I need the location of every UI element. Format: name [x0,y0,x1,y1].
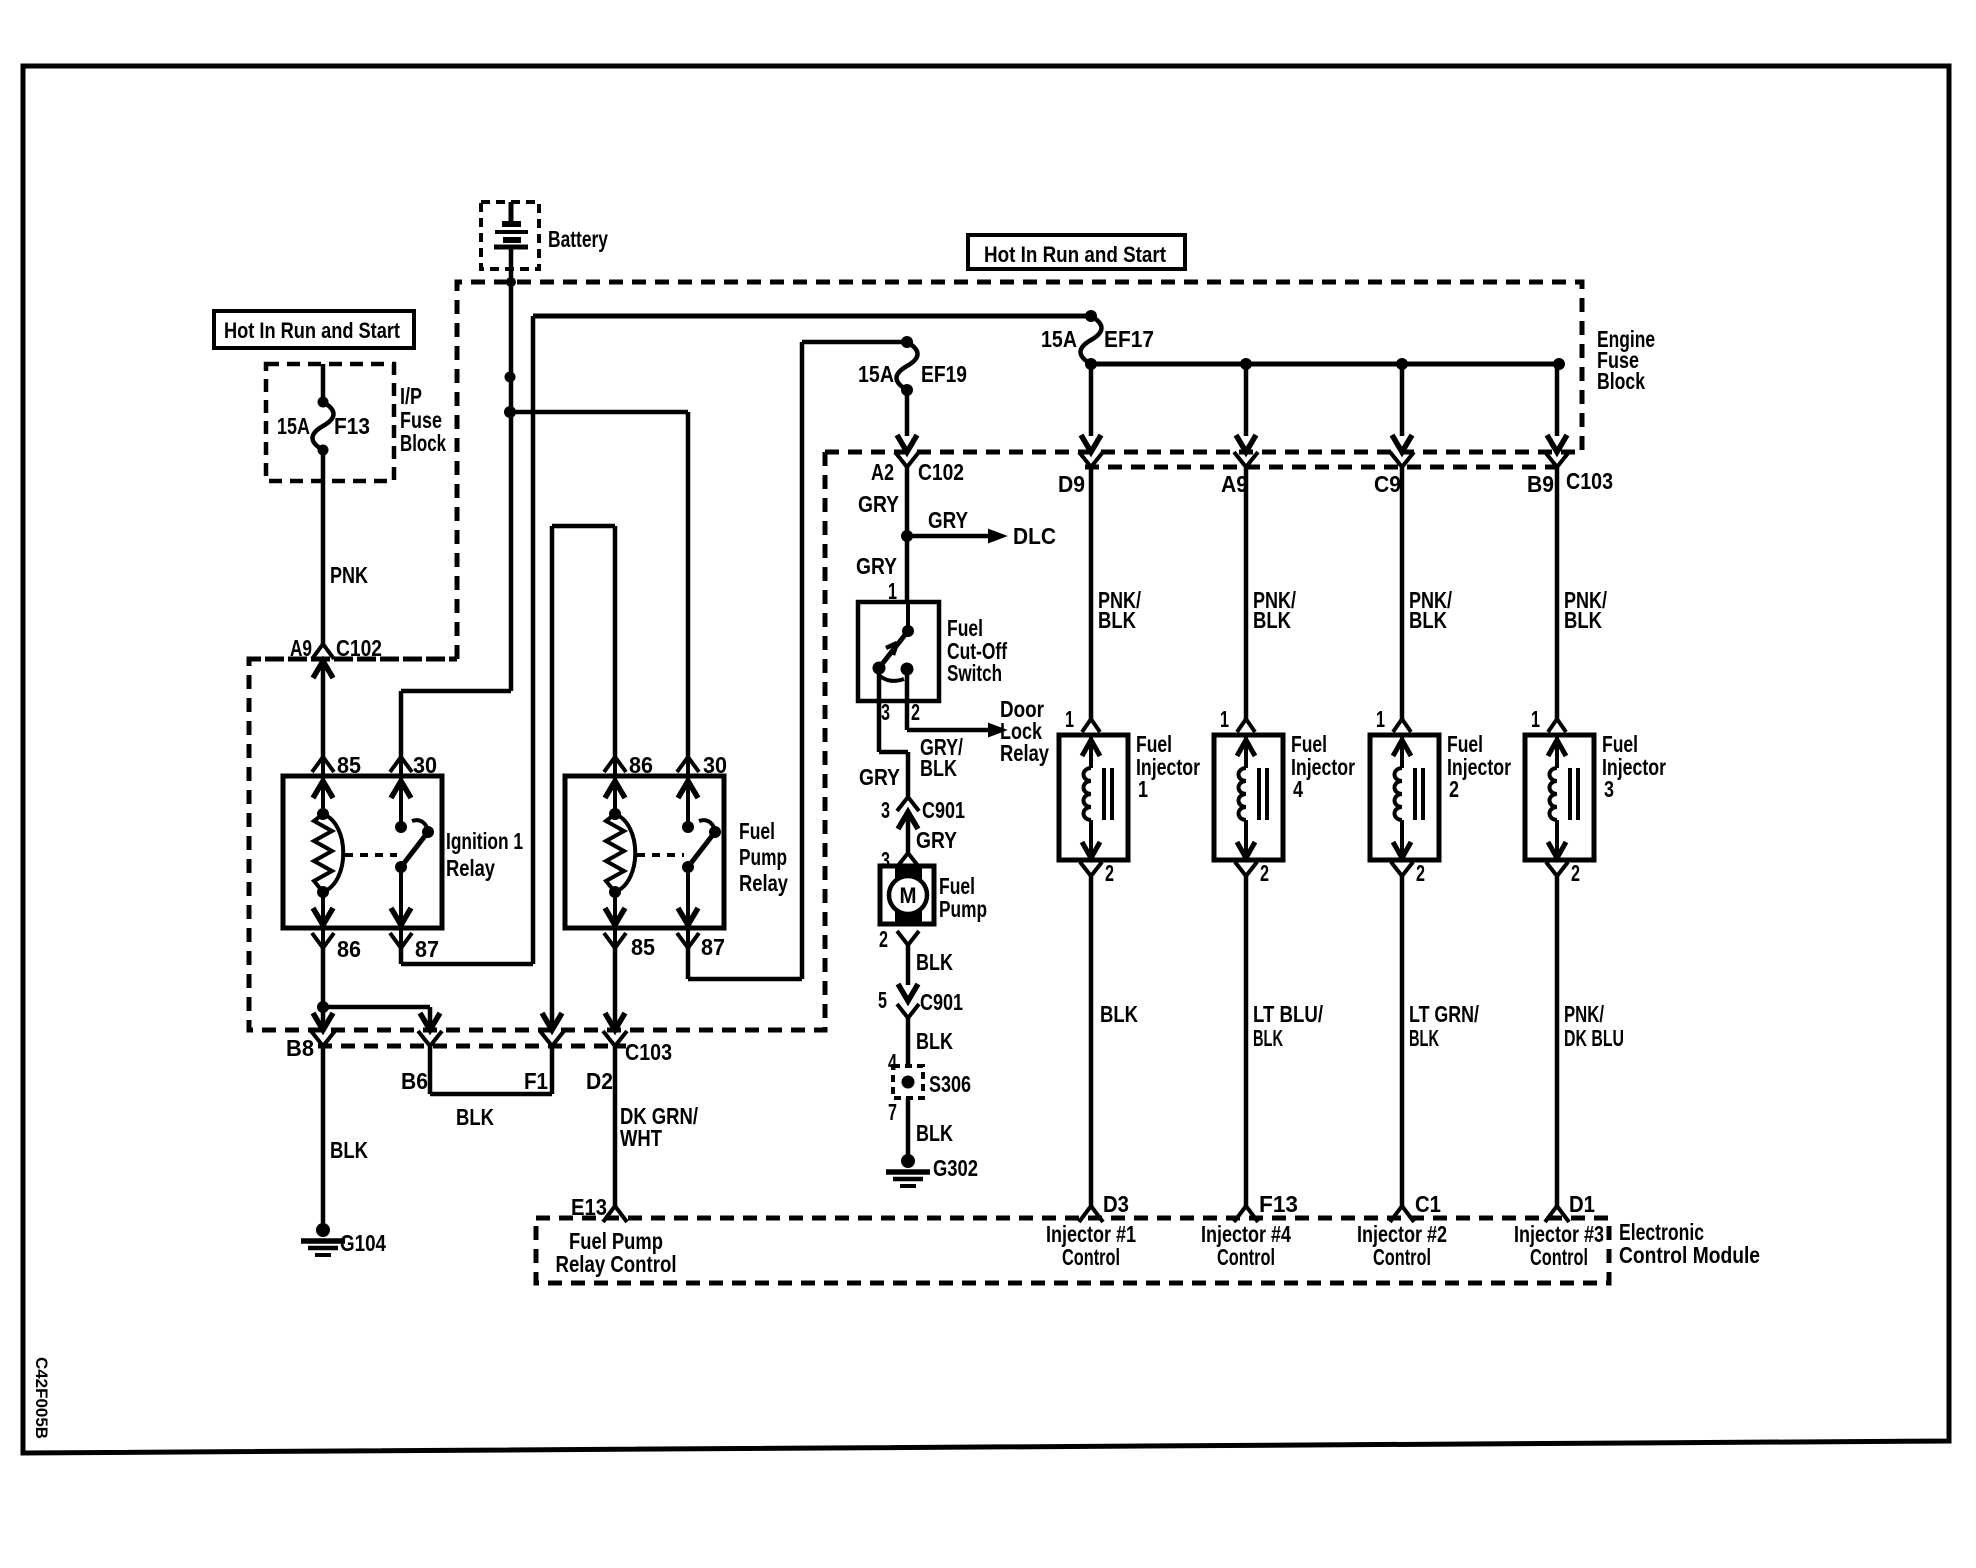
connector injector 1 pin 1 [1082,719,1100,732]
svg-text:F13: F13 [334,413,370,439]
fuse EF17 [1081,310,1102,370]
svg-text:Ignition 1: Ignition 1 [446,828,523,854]
label PNK/BLK C9 [1409,587,1452,633]
label pin 1 injector 4 [1220,706,1229,732]
wire battery to junctions [504,247,516,691]
svg-text:2: 2 [1571,860,1580,886]
svg-text:Relay: Relay [446,855,495,881]
svg-text:2: 2 [1449,776,1459,802]
svg-text:DK BLU: DK BLU [1564,1025,1624,1051]
connector injector 2 pin 1 [1393,719,1411,732]
svg-text:B8: B8 [286,1035,314,1061]
svg-text:WHT: WHT [620,1125,662,1151]
drawing number C42F005B [32,1357,51,1439]
svg-text:85: 85 [631,934,655,960]
svg-text:2: 2 [1416,860,1425,886]
svg-text:86: 86 [629,752,653,778]
svg-text:5: 5 [878,987,887,1013]
dashed connector line C103 upper [1085,465,1556,470]
svg-text:4: 4 [888,1049,897,1075]
svg-text:BLK: BLK [1564,607,1602,633]
connector ECM pin D1 [1545,1206,1569,1222]
label pin 1 injector 1 [1065,706,1074,732]
svg-text:Pump: Pump [739,844,787,870]
svg-text:2: 2 [1260,860,1269,886]
label PNK/DK BLU [1564,1001,1624,1051]
label box Hot In Run and Start (left) [214,311,414,348]
svg-text:A2: A2 [871,459,894,485]
ECM dashed box Electronic Control Module [536,1218,1609,1283]
svg-text:EF19: EF19 [921,361,967,387]
node DLC branch [901,530,1005,542]
svg-text:1: 1 [1220,706,1229,732]
dashed connector line C103 lower [318,1044,626,1049]
label Injector #4 Control [1201,1221,1291,1270]
svg-text:C901: C901 [920,989,963,1015]
svg-text:C901: C901 [922,797,965,823]
svg-text:B9: B9 [1527,471,1554,497]
svg-text:EF17: EF17 [1104,326,1154,352]
label DLC [1013,523,1056,549]
wire ignition relay 87 riser to EF17 bus [401,316,1091,964]
dashed connector line C102 left segment [247,657,457,662]
svg-text:GRY: GRY [858,491,899,517]
connector C103 pin D2 [603,1013,627,1046]
label 15A EF19 [858,361,967,387]
wire to G302 [906,1098,911,1157]
svg-text:BLK: BLK [920,755,957,781]
label pins 85 30 ignition relay [337,752,437,778]
label B6 [401,1068,428,1094]
svg-text:2: 2 [911,699,920,725]
label pin 2 injector 4 [1260,860,1269,886]
svg-text:1: 1 [1138,776,1148,802]
label C103 lower [625,1039,672,1065]
svg-text:Control: Control [1062,1244,1120,1270]
svg-text:F13: F13 [1259,1191,1298,1217]
label BLK [1100,1001,1138,1027]
svg-text:87: 87 [415,936,439,962]
wire F1 riser to fuel pump relay 86 [552,526,615,1030]
connector C103 pin D9 [1079,435,1103,467]
svg-text:BLK: BLK [916,1120,953,1146]
svg-text:3: 3 [881,797,890,823]
label Engine Fuse Block [1597,326,1655,394]
connector ECM pin D3 [1079,1206,1103,1222]
svg-text:15A: 15A [277,413,310,439]
connector C103 pin A9 [1234,435,1258,467]
label Fuel Injector 3 [1602,731,1666,802]
svg-text:A9: A9 [290,635,312,661]
wire fuse block drop A9 [1244,364,1249,436]
fuel injector 2 [1370,735,1439,860]
svg-text:87: 87 [701,934,725,960]
fuel injector 1 [1059,735,1128,860]
dashed line engine fuse block bottom / C102 [825,450,1582,455]
label pins 86 30 fuel pump relay [629,752,727,778]
svg-text:LT BLU/: LT BLU/ [1253,1001,1323,1027]
wire injector 1 to ECM [1089,876,1094,1206]
svg-text:D1: D1 [1569,1191,1595,1217]
svg-text:BLK: BLK [330,1137,368,1163]
label F1 [524,1068,548,1094]
label G104 [340,1230,386,1256]
svg-text:1: 1 [1376,706,1385,732]
label D3 [1103,1191,1129,1217]
svg-text:C42F005B: C42F005B [32,1357,51,1439]
svg-text:M: M [900,883,917,908]
label pin 1 injector 3 [1531,706,1540,732]
label pin 2 injector 3 [1571,860,1580,886]
svg-text:2: 2 [1105,860,1114,886]
label Fuel Injector 1 [1136,731,1200,802]
svg-text:C102: C102 [918,459,964,485]
relay K1 Ignition 1 Relay [283,757,442,948]
svg-text:BLK: BLK [916,949,953,975]
svg-text:BLK: BLK [1253,1025,1283,1051]
svg-text:C102: C102 [336,635,382,661]
svg-text:G104: G104 [340,1230,386,1256]
label Battery [548,226,608,252]
svg-text:DLC: DLC [1013,523,1056,549]
wire injector 2 to ECM [1400,876,1405,1206]
svg-text:Hot In Run and Start: Hot In Run and Start [984,242,1167,267]
svg-text:1: 1 [1065,706,1074,732]
label Fuel Pump [939,873,987,922]
svg-text:BLK: BLK [1409,1025,1439,1051]
svg-text:GRY: GRY [859,764,900,790]
svg-text:C103: C103 [1566,468,1613,494]
motor M1 fuel pump [880,866,934,924]
label GRY 1 [858,491,899,517]
svg-text:PNK: PNK [330,562,368,588]
svg-text:Switch: Switch [947,660,1002,686]
svg-text:F1: F1 [524,1068,548,1094]
label box Hot In Run and Start (right) [968,235,1185,269]
svg-text:GRY: GRY [928,507,968,533]
svg-text:85: 85 [337,752,361,778]
svg-text:15A: 15A [858,361,894,387]
svg-text:PNK/: PNK/ [1564,1001,1604,1027]
connector injector 3 pin 2 [1546,862,1568,876]
svg-text:86: 86 [337,936,361,962]
label Injector #3 Control [1514,1221,1604,1270]
wire PNK/BLK to injector 1 [1089,467,1094,719]
wire fuel pump relay 85 down to D2 [613,948,618,1030]
label D2 [586,1068,613,1094]
label I/P Fuse Block [400,383,446,456]
svg-text:Relay: Relay [739,870,788,896]
label D1 [1569,1191,1595,1217]
svg-text:Control: Control [1530,1244,1588,1270]
wire branch 86 to B6 [323,1007,430,1030]
svg-text:4: 4 [1293,776,1303,802]
svg-text:D2: D2 [586,1068,613,1094]
svg-text:C1: C1 [1415,1191,1441,1217]
label D9 [1058,471,1085,497]
connector fuel pump pin 2 [897,931,919,985]
label PNK/BLK D9 [1098,587,1141,633]
label LT BLU/BLK [1253,1001,1323,1051]
label GRY 4 [916,827,957,853]
switch fuel cut-off contacts [873,602,915,681]
svg-text:C9: C9 [1374,471,1401,497]
label G302 [933,1155,978,1181]
wire ignition relay 86 down [317,948,329,1030]
label GRY/BLK [920,734,963,781]
label Injector #1 Control [1046,1221,1136,1270]
wire battery to ignition relay 30 [401,691,511,757]
label PNK/BLK A9 [1253,587,1296,633]
connector injector 1 pin 2 [1080,862,1102,876]
wire EF19 to C102 A2 [905,390,910,436]
svg-text:LT GRN/: LT GRN/ [1409,1001,1479,1027]
wire PNK F13 to C102 [321,450,326,644]
label pins 86 87 ignition relay [337,936,439,962]
wire PNK/BLK to injector 2 [1400,467,1405,719]
wire fuse block drop C9 [1400,364,1405,436]
label pin 1 injector 2 [1376,706,1385,732]
wire D2 DK GRN/WHT to E13 [613,1046,618,1206]
svg-text:BLK: BLK [916,1028,953,1054]
label B9 [1527,471,1554,497]
svg-text:GRY: GRY [856,553,897,579]
svg-text:30: 30 [413,752,437,778]
connector C103 pin B8 [311,1013,335,1046]
wire into fuse F13 [321,364,326,402]
connector ECM pin F13 [1234,1206,1258,1222]
wire fuel pump relay 87 riser to EF19 [688,342,907,979]
label pin 3 fuel pump [881,847,890,873]
label C103 upper [1566,468,1613,494]
label PNK [330,562,368,588]
label GRY 3 [859,764,900,790]
connector ECM pin E13 [603,1206,627,1222]
svg-text:BLK: BLK [1409,607,1447,633]
relay K2 Fuel Pump Relay [565,757,724,948]
svg-text:Fuel: Fuel [739,818,775,844]
connector C103 pin B6 [418,1013,442,1046]
svg-text:2: 2 [879,926,888,952]
svg-text:1: 1 [1531,706,1540,732]
battery symbol [494,202,528,247]
label BLK to G302 [916,1120,953,1146]
svg-text:B6: B6 [401,1068,428,1094]
label BLK pump [916,949,953,975]
label DK GRN/WHT [620,1103,698,1151]
label 15A F13 [277,413,370,439]
connector injector 2 pin 2 [1391,862,1413,876]
svg-text:G302: G302 [933,1155,978,1181]
connector C901 pin 5 [897,984,919,1066]
label Fuel Pump Relay Control [556,1228,677,1277]
svg-text:D9: D9 [1058,471,1085,497]
label pin 7 [888,1099,897,1125]
label BLK jumper [456,1104,494,1130]
svg-text:7: 7 [888,1099,897,1125]
label A9 [1221,471,1248,497]
label pins 3 2 [881,699,920,725]
wire B8 BLK to ground [321,1046,326,1224]
connector C103 pin C9 [1390,435,1414,467]
label A2 C102 [871,459,964,485]
svg-text:3: 3 [881,699,890,725]
label pin 2 injector 1 [1105,860,1114,886]
svg-text:Control: Control [1217,1244,1275,1270]
fuse F13 [313,397,334,456]
label Injector #2 Control [1357,1221,1447,1270]
svg-text:Relay: Relay [1000,740,1049,766]
connector C102 pin A9 [312,644,334,757]
connector C103 pin B9 [1545,435,1569,467]
svg-text:30: 30 [703,752,727,778]
label LT GRN/BLK [1409,1001,1479,1051]
wire pin 2 to door lock relay [907,669,1005,736]
label pins 85 87 fuel pump relay [631,934,725,960]
svg-text:C103: C103 [625,1039,672,1065]
svg-text:Control Module: Control Module [1619,1242,1760,1268]
splice S306 [893,1066,923,1098]
label Fuel Injector 2 [1447,731,1511,802]
dashed power bus outline (Hot In Run and Start) [249,282,1582,1030]
svg-text:Block: Block [400,430,446,456]
wire fuse block drop B9 [1555,364,1560,436]
connector injector 4 pin 2 [1235,862,1257,876]
label Fuel Cut-Off Switch [947,615,1007,686]
wire injector feed bus [1091,358,1565,370]
svg-text:Block: Block [1597,368,1645,394]
label E13 [571,1194,607,1220]
label pin 1 fuel cut-off [888,578,897,604]
ground G104 [301,1223,345,1255]
svg-text:Relay Control: Relay Control [556,1251,677,1277]
fuel injector 3 [1525,735,1594,860]
svg-text:Pump: Pump [939,896,987,922]
svg-text:3: 3 [1604,776,1614,802]
I/P fuse block dashed box [266,364,394,481]
svg-text:GRY: GRY [916,827,957,853]
ground G302 [886,1154,930,1186]
label pin 4 [888,1049,897,1075]
fuel injector 4 [1214,735,1283,860]
svg-text:I/P: I/P [400,383,422,409]
battery B+ dashed box [481,202,539,269]
wire PNK/BLK to injector 4 [1244,467,1249,719]
label BLK B8 wire [330,1137,368,1163]
label Fuel Injector 4 [1291,731,1355,802]
label Ignition 1 Relay [446,828,523,881]
svg-text:BLK: BLK [1098,607,1136,633]
connector fuel pump pin 3 [897,853,919,867]
wire PNK/BLK to injector 3 [1555,467,1560,719]
label A9 C102 [290,635,382,661]
label GRY 2 [856,553,897,579]
svg-text:Hot In Run and Start: Hot In Run and Start [224,318,401,343]
label BLK below C901 [916,1028,953,1054]
label S306 [929,1071,971,1097]
switch fuel cut-off box [858,602,939,701]
svg-text:Control: Control [1373,1244,1431,1270]
wire injector 4 to ECM [1244,876,1249,1206]
label C9 [1374,471,1401,497]
svg-text:BLK: BLK [1253,607,1291,633]
connector C103 pin F1 [540,1013,564,1046]
fuse EF19 [897,336,918,396]
connector injector 4 pin 1 [1237,719,1255,732]
connector ECM pin C1 [1390,1206,1414,1222]
svg-text:BLK: BLK [456,1104,494,1130]
label C1 [1415,1191,1441,1217]
svg-text:D3: D3 [1103,1191,1129,1217]
label F13 [1259,1191,1298,1217]
connector C102 pin A2 [895,435,919,602]
label pin 2 fuel pump [879,926,888,952]
label 3 C901 [881,797,965,823]
wire jumper B6 to F1 BLK [430,1046,552,1094]
label B8 [286,1035,314,1061]
label Fuel Pump Relay [739,818,788,896]
wire battery junction to fuel pump relay 30 [510,412,688,757]
label Door Lock Relay [1000,696,1049,766]
label 15A EF17 [1041,326,1154,352]
connector C901 pin 3 [897,797,919,853]
label 5 C901 [878,987,963,1015]
svg-text:15A: 15A [1041,326,1077,352]
wire pin 3 fuel cut-off [879,668,908,797]
junction dot battery wire at bus [506,277,516,287]
svg-text:BLK: BLK [1100,1001,1138,1027]
wire injector 3 to ECM [1555,876,1560,1206]
svg-text:Battery: Battery [548,226,608,252]
label GRY DLC [928,507,968,533]
connector injector 3 pin 1 [1548,719,1566,732]
label PNK/BLK B9 [1564,587,1607,633]
label Electronic Control Module [1619,1219,1760,1268]
wire fuse block drop D9 [1089,364,1094,436]
label pin 2 injector 2 [1416,860,1425,886]
svg-text:S306: S306 [929,1071,971,1097]
label M motor [900,883,917,908]
